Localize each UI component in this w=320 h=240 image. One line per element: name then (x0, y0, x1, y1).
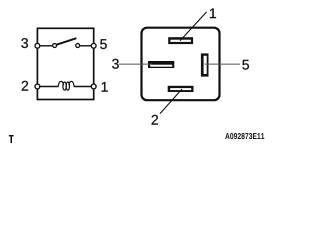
terminal 3 (35, 43, 40, 48)
wire terminal2 to coil (37, 86, 58, 88)
label pin 3 (schematic) (21, 38, 28, 48)
relay connector body (142, 28, 220, 101)
switch contact right (76, 44, 80, 48)
wire coil to terminal1 (74, 86, 94, 88)
wire terminal3 to switch contact (37, 45, 53, 47)
leader line pin 2 (160, 89, 182, 114)
connector slot pin 3 (148, 61, 174, 68)
label pin 5 (schematic) (100, 39, 107, 49)
label pin 5 (connector) (242, 60, 249, 70)
label pin 2 (schematic) (22, 81, 28, 91)
switch contact left (53, 44, 57, 48)
label pin 3 (connector) (112, 59, 119, 69)
leader line pin 3 (119, 63, 152, 65)
relay schematic box (37, 28, 93, 99)
switch blade (56, 38, 76, 45)
wire switch contact to terminal5 (79, 45, 94, 47)
connector slot pin 1 (168, 37, 193, 44)
label pin 1 (schematic) (102, 82, 108, 92)
terminal 5 (91, 43, 96, 48)
label pin 2 (connector) (152, 115, 158, 125)
terminal 2 (35, 84, 40, 89)
figure code A092873E11 (225, 133, 264, 139)
label pin 1 (connector) (210, 8, 216, 18)
leader line pin 1 (180, 12, 207, 41)
footer mark T (9, 135, 14, 143)
coil L (58, 81, 74, 90)
terminal 1 (91, 84, 96, 89)
leader line pin 5 (205, 63, 241, 65)
connector slot pin 2 (168, 86, 194, 92)
connector slot pin 5 (201, 53, 209, 76)
